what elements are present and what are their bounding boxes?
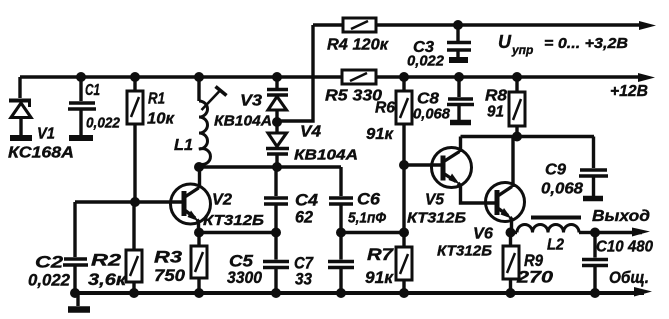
- svg-text:3,6к: 3,6к: [88, 270, 128, 289]
- node C3 top: [453, 20, 463, 30]
- wire base line: [75, 200, 183, 203]
- resistor R9: [503, 233, 519, 294]
- node ground C7: [336, 288, 346, 298]
- capacitor C9: [579, 137, 608, 199]
- L2 core: [531, 216, 581, 220]
- svg-text:R8: R8: [485, 88, 507, 105]
- node varicap junction: [272, 117, 282, 127]
- svg-text:0,022: 0,022: [28, 271, 71, 290]
- svg-text:33: 33: [295, 270, 312, 289]
- svg-text:10к: 10к: [147, 111, 175, 128]
- svg-text:R3: R3: [154, 248, 183, 267]
- svg-text:R1: R1: [148, 91, 165, 108]
- svg-text:91к: 91к: [366, 126, 394, 143]
- capacitor C10: [582, 233, 608, 294]
- svg-text:L2: L2: [547, 237, 564, 254]
- node rail C8: [454, 72, 464, 82]
- svg-text:R2: R2: [91, 251, 122, 270]
- wire output: [595, 231, 642, 234]
- transistor V2: [171, 167, 211, 233]
- svg-text:L1: L1: [174, 137, 193, 154]
- svg-text:V6: V6: [473, 226, 493, 243]
- ground: [68, 293, 90, 310]
- resistor R3: [191, 233, 207, 294]
- capacitor C5: [263, 233, 289, 294]
- node rail L1: [194, 72, 204, 82]
- resistor R1: [127, 77, 143, 202]
- capacitor C2: [63, 202, 88, 293]
- svg-text:КС168А: КС168А: [8, 145, 74, 162]
- svg-text:R7: R7: [367, 245, 395, 264]
- svg-text:R6: R6: [375, 100, 395, 117]
- svg-text:5,1пФ: 5,1пФ: [348, 210, 386, 227]
- svg-text:62: 62: [295, 208, 314, 227]
- inductor L1: [199, 77, 210, 167]
- transistor V5: [432, 137, 497, 204]
- node rail C1: [76, 72, 86, 82]
- node ground C5: [271, 288, 281, 298]
- inductor L2: [511, 225, 596, 233]
- L1 adjuster arrow: [202, 87, 227, 111]
- node R8 bottom: [512, 132, 522, 142]
- svg-text:упр: упр: [511, 43, 533, 57]
- svg-text:КТ312Б: КТ312Б: [203, 212, 264, 229]
- svg-text:270: 270: [516, 268, 554, 287]
- arrow +12V: [638, 73, 655, 82]
- arrow output: [632, 228, 650, 237]
- node V4 bottom: [272, 162, 282, 172]
- svg-text:V2: V2: [212, 192, 232, 209]
- node rail V3: [272, 72, 282, 82]
- node V5 base tap: [399, 160, 409, 170]
- node rail R8: [512, 72, 522, 82]
- svg-text:91к: 91к: [365, 268, 394, 287]
- svg-text:КТ312Б: КТ312Б: [407, 210, 466, 227]
- node rail R6: [399, 72, 409, 82]
- capacitor C1: [68, 77, 96, 138]
- wire +12V rail: [20, 75, 342, 78]
- zener diode V1: [9, 77, 32, 138]
- arrow Uupr: [639, 21, 656, 30]
- svg-text:0,022: 0,022: [86, 115, 121, 132]
- node ground R2: [129, 288, 139, 298]
- svg-text:Общ.: Общ.: [609, 268, 649, 287]
- resistor R6: [396, 77, 412, 247]
- svg-text:С2: С2: [35, 253, 64, 272]
- wire collector line: [199, 165, 341, 168]
- svg-text:91: 91: [487, 104, 504, 121]
- wire V5 base: [404, 163, 443, 166]
- node ground C2: [70, 288, 80, 298]
- node C4 C5: [271, 228, 281, 238]
- varicap V4: [266, 133, 289, 167]
- capacitor C6: [329, 167, 353, 233]
- node V2 emitter: [194, 228, 204, 238]
- svg-text:КТ312Б: КТ312Б: [437, 243, 492, 260]
- svg-text:0,022: 0,022: [407, 53, 445, 70]
- svg-text:3300: 3300: [227, 268, 262, 287]
- wire top control rail: [313, 23, 343, 26]
- node C6 C7: [336, 228, 346, 238]
- svg-text:С1: С1: [85, 82, 100, 99]
- svg-text:КВ104А: КВ104А: [214, 113, 272, 130]
- node C10 top: [590, 228, 600, 238]
- node ground C10: [590, 288, 600, 298]
- transistor V6: [486, 137, 525, 233]
- svg-text:Выход: Выход: [592, 208, 650, 225]
- wire collector bus: [461, 135, 595, 138]
- svg-text:0,068: 0,068: [413, 106, 451, 123]
- svg-text:V1: V1: [37, 126, 55, 143]
- resistor R7: [396, 247, 412, 293]
- node ground R7: [399, 288, 409, 298]
- svg-text:С10 480: С10 480: [596, 239, 653, 256]
- svg-text:+12В: +12В: [610, 83, 648, 100]
- svg-text:V5: V5: [425, 192, 445, 209]
- node rail R1: [130, 72, 140, 82]
- capacitor C3: [447, 25, 471, 60]
- wire coupling line: [341, 231, 404, 234]
- node ground R9: [506, 288, 516, 298]
- svg-text:КВ104А: КВ104А: [294, 147, 358, 164]
- capacitor C8: [447, 77, 474, 123]
- node ground R3: [194, 288, 204, 298]
- svg-text:R4 120к: R4 120к: [327, 37, 389, 54]
- resistor R4: [343, 18, 376, 32]
- svg-text:С6: С6: [357, 190, 381, 209]
- svg-text:750: 750: [154, 266, 186, 285]
- capacitor C7: [328, 233, 354, 294]
- node R1 R2 base: [130, 197, 140, 207]
- wire bottom common rail: [72, 291, 644, 295]
- svg-text:U: U: [498, 32, 512, 52]
- arrow common: [634, 287, 652, 297]
- svg-text:= 0... +3,2В: = 0... +3,2В: [544, 35, 628, 52]
- capacitor C4: [264, 167, 288, 233]
- wire emitter line: [199, 231, 276, 234]
- node L1 bottom: [194, 162, 204, 172]
- varicap V3: [267, 77, 288, 133]
- svg-text:V3: V3: [240, 93, 262, 110]
- resistor R5: [342, 70, 376, 84]
- wire Uupr feed vertical: [277, 25, 313, 121]
- resistor R2: [126, 202, 142, 293]
- node R7 top: [399, 228, 409, 238]
- resistor R8: [509, 77, 525, 137]
- svg-text:V4: V4: [300, 124, 321, 141]
- svg-text:0,068: 0,068: [541, 181, 583, 198]
- node V6 emitter: [506, 228, 516, 238]
- svg-text:R5 330: R5 330: [325, 88, 382, 105]
- svg-text:С9: С9: [545, 162, 566, 179]
